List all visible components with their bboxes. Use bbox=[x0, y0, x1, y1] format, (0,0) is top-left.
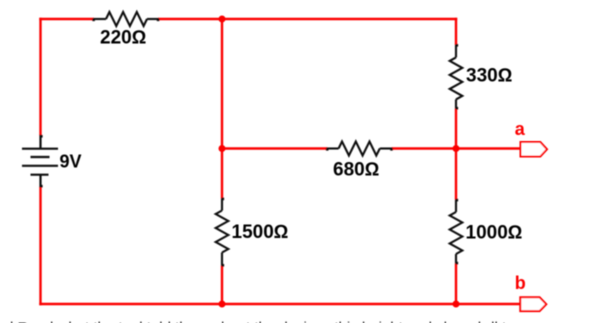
junction node middle wire right bbox=[453, 145, 460, 152]
wire middle vertical lower bbox=[221, 266, 223, 305]
resistor R1 220 ohm bbox=[92, 12, 159, 26]
wire middle horizontal right of R3 bbox=[392, 147, 521, 149]
resistor R2 330 ohm bbox=[450, 44, 463, 110]
wire top right horizontal bbox=[158, 18, 457, 20]
junction node bottom middle bbox=[219, 301, 226, 308]
wire bottom horizontal bbox=[39, 303, 520, 305]
junction node middle wire left bbox=[219, 145, 226, 152]
svg-text:1000Ω: 1000Ω bbox=[466, 222, 523, 243]
svg-text:680Ω: 680Ω bbox=[333, 159, 379, 180]
resistor R4 1500 ohm bbox=[216, 198, 229, 267]
wire top left horizontal bbox=[39, 18, 94, 20]
terminal connector b bbox=[520, 297, 546, 311]
svg-text:9V: 9V bbox=[60, 151, 82, 171]
terminal connector a bbox=[521, 142, 548, 157]
svg-text:1500Ω: 1500Ω bbox=[232, 222, 289, 243]
wire middle vertical upper bbox=[221, 19, 223, 199]
wire left vertical upper bbox=[39, 18, 41, 136]
svg-text:220Ω: 220Ω bbox=[100, 28, 146, 49]
svg-text:330Ω: 330Ω bbox=[466, 65, 512, 86]
svg-text:d Read what the tool told them: d Read what the tool told them about the… bbox=[5, 319, 507, 323]
wire left vertical lower bbox=[39, 187, 41, 306]
resistor R3 680 ohm bbox=[326, 142, 393, 156]
junction node bottom right bbox=[453, 301, 460, 308]
wire middle horizontal left of R3 bbox=[222, 147, 328, 149]
wire right vertical middle bbox=[455, 109, 457, 200]
junction node top middle bbox=[219, 16, 226, 23]
wire right vertical bottom bbox=[455, 264, 457, 305]
svg-text:a: a bbox=[515, 119, 526, 139]
battery V1 9V bbox=[22, 135, 58, 188]
wire right vertical top bbox=[455, 18, 457, 45]
svg-text:b: b bbox=[515, 273, 526, 293]
resistor R5 1000 ohm bbox=[450, 199, 463, 265]
